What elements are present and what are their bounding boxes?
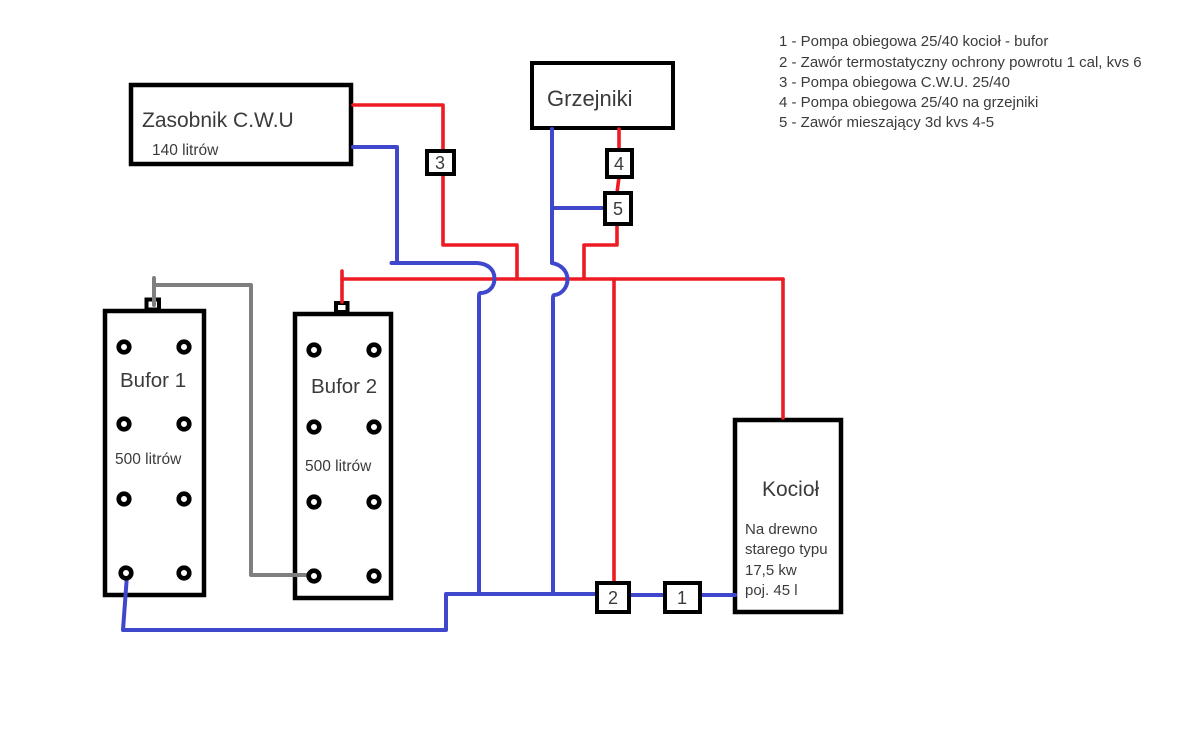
wire blue bottom return from Bufor 1 [123, 575, 596, 630]
wire red from valve 5 to main line [584, 224, 617, 279]
svg-text:Grzejniki: Grzejniki [547, 86, 633, 111]
svg-text:3 - Pompa obiegowa C.W.U. 25/4: 3 - Pompa obiegowa C.W.U. 25/40 [779, 74, 1010, 91]
wire red drop to Bufor 2 stub [340, 271, 344, 302]
radiators Grzejniki box [532, 63, 673, 128]
Bufor 2 labels [305, 375, 377, 475]
buffer tank Bufor 1 top stub [147, 300, 160, 310]
wire red pump 4 to valve 5 [617, 177, 619, 193]
Bufor 2 ports (8 circles) [309, 345, 380, 582]
wire gray Bufor 1 to Bufor 2 bottom circle [154, 285, 310, 575]
wire blue pump 1 to Kociol [701, 593, 735, 597]
svg-text:17,5 kw: 17,5 kw [745, 562, 797, 579]
svg-text:4 - Pompa obiegowa 25/40 na gr: 4 - Pompa obiegowa 25/40 na grzejniki [779, 94, 1038, 111]
svg-text:140 litrów: 140 litrów [152, 142, 219, 159]
svg-text:3: 3 [435, 153, 445, 173]
pump box 4 [607, 150, 632, 177]
buffer tank Bufor 1 box [105, 311, 204, 595]
svg-text:2 - Zawór termostatyczny ochro: 2 - Zawór termostatyczny ochrony powrotu… [779, 54, 1142, 71]
svg-text:Zasobnik C.W.U: Zasobnik C.W.U [142, 109, 294, 132]
svg-text:4: 4 [614, 154, 624, 174]
buffer tank Bufor 2 box [295, 314, 391, 598]
tank Zasobnik C.W.U box [131, 85, 351, 164]
svg-text:poj. 45 l: poj. 45 l [745, 582, 798, 599]
wire blue branch to valve 5 [552, 206, 603, 210]
svg-text:Na drewno: Na drewno [745, 521, 818, 538]
boiler Kociol box [735, 420, 841, 612]
wire red supply from Zasobnik through pump 3 [353, 105, 443, 151]
svg-text:Bufor 2: Bufor 2 [311, 375, 377, 398]
Bufor 1 ports (8 circles) [119, 342, 190, 579]
pump box 1 [665, 583, 700, 612]
svg-text:Kocioł: Kocioł [762, 478, 820, 501]
svg-text:500 litrów: 500 litrów [305, 458, 372, 475]
svg-text:5 - Zawór mieszający 3d kvs 4-: 5 - Zawór mieszający 3d kvs 4-5 [779, 114, 994, 131]
wire red drop to valve 2 [612, 279, 616, 581]
svg-text:starego typu: starego typu [745, 541, 828, 558]
valve box 2 [597, 583, 629, 612]
wire red Grzejniki to pump 4 [617, 129, 621, 150]
svg-text:1 - Pompa obiegowa 25/40 kocio: 1 - Pompa obiegowa 25/40 kocioł - bufor [779, 33, 1048, 50]
wire gray from Bufor 1 stub [152, 278, 156, 305]
svg-text:1: 1 [677, 588, 687, 608]
wire red pump3 down to main line [443, 174, 517, 279]
legend text [779, 33, 1142, 131]
svg-text:5: 5 [613, 199, 623, 219]
buffer tank Bufor 2 top stub [336, 303, 348, 312]
wire blue between valve 2 and pump 1 [630, 593, 664, 597]
Bufor 1 labels [115, 369, 186, 468]
wire red drop to Kociol top [781, 279, 785, 418]
wire blue from Grzejniki with hop over red main line [552, 129, 568, 594]
wire blue from Zasobnik with hop over red main line [353, 147, 495, 594]
wire red main horizontal line [342, 277, 783, 281]
pump box 3 [427, 151, 454, 174]
svg-text:2: 2 [608, 588, 618, 608]
svg-text:Bufor 1: Bufor 1 [120, 369, 186, 392]
svg-text:500 litrów: 500 litrów [115, 451, 182, 468]
valve box 5 [605, 193, 631, 224]
